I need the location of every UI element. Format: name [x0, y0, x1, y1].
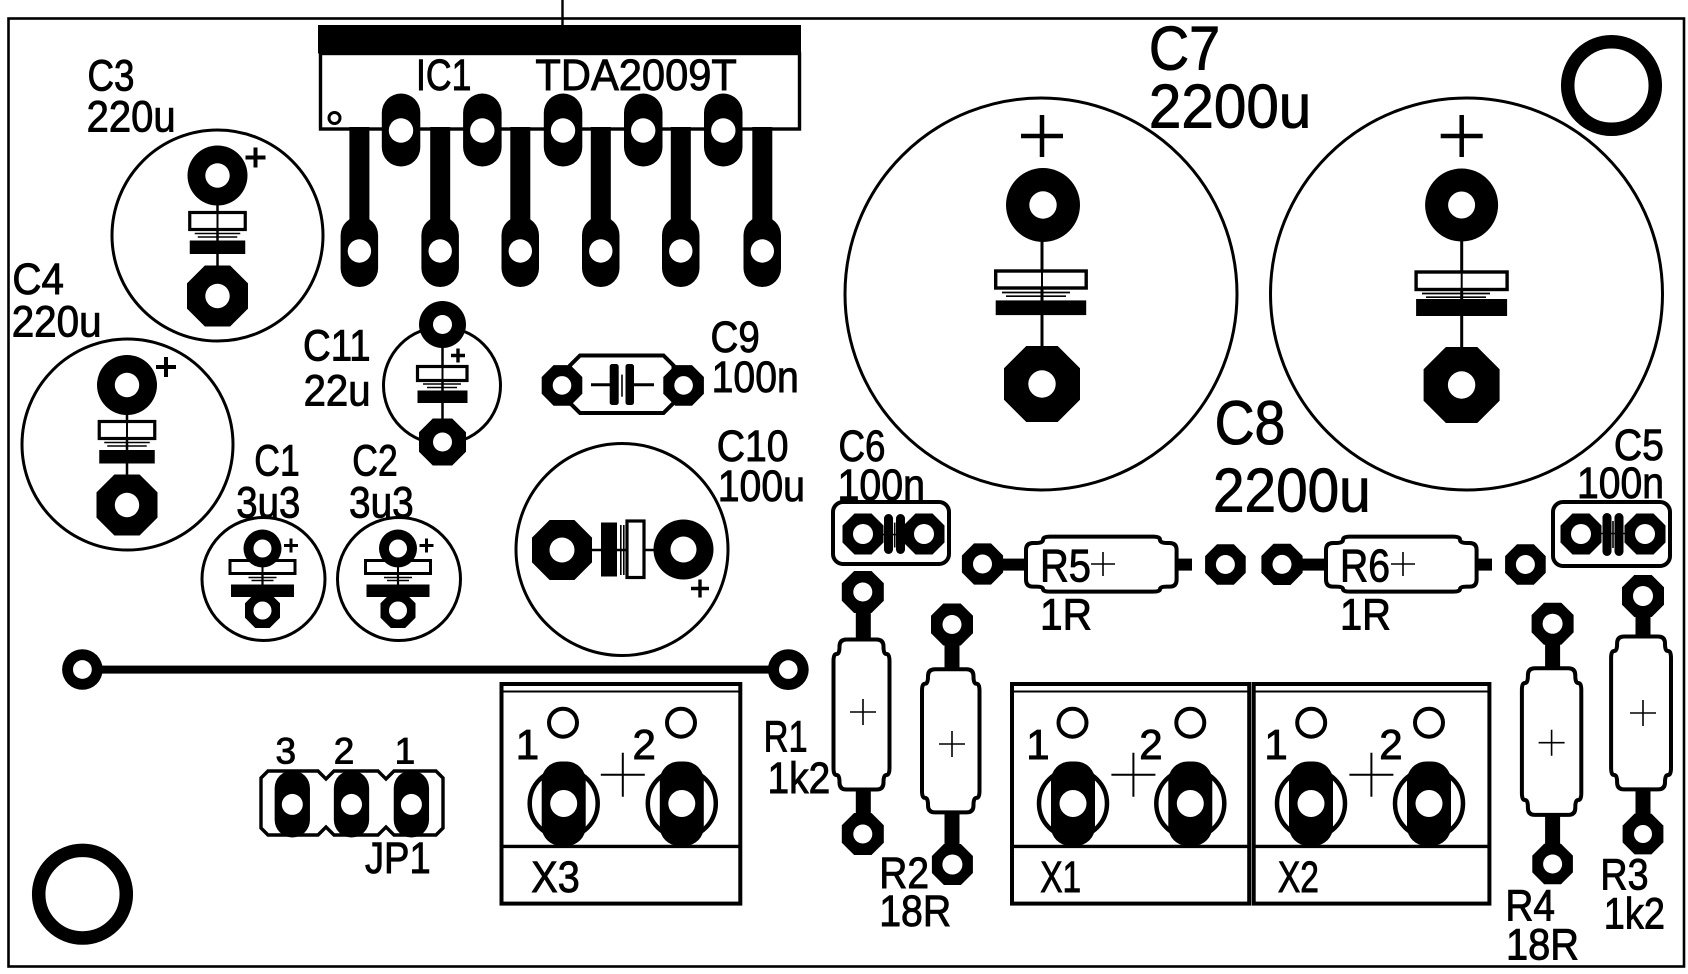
wire trace IC1 pin 7	[591, 127, 611, 222]
svg-text:220u: 220u	[87, 92, 176, 141]
resistor R3	[1600, 575, 1671, 939]
svg-text:100n: 100n	[838, 461, 926, 510]
svg-text:X1: X1	[1040, 853, 1081, 902]
wire trace IC1 pin 3	[430, 127, 450, 222]
pad IC1 pin 3	[421, 217, 459, 288]
capacitor C5	[1553, 421, 1670, 566]
capacitor C2	[338, 437, 461, 641]
pad JP1 pin 2	[334, 771, 369, 838]
capacitor C3	[87, 52, 323, 342]
wire trace IC1 pin 11	[752, 127, 772, 222]
pad IC1 pin 1	[341, 217, 379, 288]
svg-text:2: 2	[1379, 721, 1402, 768]
svg-text:3u3: 3u3	[349, 479, 414, 528]
terminal block X3	[502, 684, 741, 904]
svg-text:1: 1	[516, 721, 539, 768]
svg-text:1: 1	[1026, 721, 1049, 768]
pad IC1 pin 4	[463, 94, 502, 167]
svg-text:R6: R6	[1340, 540, 1390, 592]
pad IC1 pin 11	[744, 217, 782, 288]
svg-text:1R: 1R	[1340, 590, 1391, 639]
via pad wire right	[768, 649, 809, 690]
svg-text:2200u: 2200u	[1213, 456, 1371, 525]
svg-text:X3: X3	[531, 853, 580, 902]
wire trace IC1 pin 5	[510, 127, 530, 222]
svg-text:22u: 22u	[304, 367, 371, 416]
svg-text:100n: 100n	[712, 353, 799, 402]
svg-text:R5: R5	[1040, 540, 1091, 592]
svg-text:1k2: 1k2	[768, 754, 831, 803]
svg-text:2200u: 2200u	[1149, 73, 1311, 142]
capacitor C11	[303, 301, 501, 466]
capacitor C7	[845, 14, 1311, 490]
pad IC1 pin 2	[382, 94, 421, 167]
svg-text:1: 1	[395, 731, 416, 772]
capacitor C4	[12, 255, 233, 550]
mounting hole ring bottom left	[39, 850, 127, 938]
svg-text:1R: 1R	[1040, 590, 1092, 639]
via pad wire left	[62, 649, 103, 690]
terminal block X2	[1254, 684, 1490, 904]
pad IC1 pin 9	[662, 217, 700, 288]
wire stub top center	[561, 0, 563, 26]
svg-text:100n: 100n	[1577, 459, 1664, 508]
svg-text:100u: 100u	[718, 462, 805, 511]
wire long horizontal net	[82, 666, 788, 674]
resistor R1	[764, 571, 890, 855]
svg-text:IC1: IC1	[416, 51, 471, 100]
terminal block X1	[1012, 684, 1249, 904]
svg-text:18R: 18R	[1506, 921, 1579, 970]
svg-text:JP1: JP1	[365, 834, 431, 883]
capacitor C1	[202, 437, 325, 641]
svg-text:3u3: 3u3	[236, 479, 300, 528]
svg-text:1: 1	[1264, 721, 1287, 768]
svg-text:2: 2	[1139, 721, 1162, 768]
capacitor C8	[1213, 98, 1663, 525]
pad IC1 pin 5	[502, 217, 540, 288]
resistor R6	[1261, 537, 1545, 640]
capacitor C9	[542, 313, 799, 413]
svg-text:X2: X2	[1278, 853, 1319, 902]
svg-text:1k2: 1k2	[1604, 890, 1665, 939]
pad JP1 pin 1	[394, 771, 429, 838]
jumper header JP1	[261, 731, 443, 883]
svg-text:18R: 18R	[879, 887, 951, 936]
pad IC1 pin 8	[624, 94, 663, 167]
pad IC1 pin 10	[704, 94, 743, 167]
resistor R2	[879, 604, 979, 936]
svg-text:2: 2	[633, 721, 656, 768]
svg-text:C8: C8	[1215, 389, 1286, 458]
capacitor C10	[516, 422, 805, 656]
IC1 pin 1 marker	[329, 113, 340, 124]
capacitor C6	[833, 422, 949, 564]
pad IC1 pin 6	[544, 94, 583, 167]
op-amp IC1 TDA2009T body	[318, 25, 801, 287]
pad IC1 pin 7	[582, 217, 620, 288]
resistor R4	[1505, 603, 1581, 970]
svg-text:C11: C11	[303, 322, 371, 371]
svg-text:220u: 220u	[12, 298, 102, 347]
resistor R5	[962, 537, 1246, 640]
svg-text:TDA2009T: TDA2009T	[535, 51, 737, 100]
svg-text:3: 3	[276, 731, 297, 772]
wire trace IC1 pin 1	[349, 127, 369, 222]
pad JP1 pin 3	[275, 771, 310, 838]
mounting hole ring top right	[1568, 42, 1656, 130]
svg-text:2: 2	[334, 731, 355, 772]
wire trace IC1 pin 9	[671, 127, 691, 222]
